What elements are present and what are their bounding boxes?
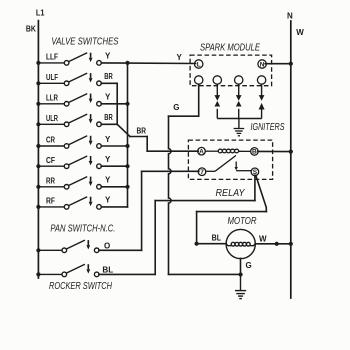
svg-text:PAN SWITCH-N.C.: PAN SWITCH-N.C. (50, 224, 115, 235)
svg-text:BL: BL (102, 266, 113, 275)
svg-text:N: N (260, 61, 265, 68)
svg-text:Y: Y (177, 53, 183, 62)
svg-text:LLR: LLR (46, 94, 58, 103)
svg-text:A: A (199, 149, 204, 156)
svg-text:B: B (252, 149, 257, 156)
svg-text:Y: Y (105, 196, 111, 205)
svg-text:RELAY: RELAY (216, 188, 246, 199)
svg-text:Y: Y (105, 135, 111, 144)
svg-text:RF: RF (46, 197, 55, 206)
svg-text:L1: L1 (36, 9, 45, 18)
svg-text:CR: CR (46, 136, 55, 145)
svg-text:BR: BR (137, 126, 147, 135)
svg-text:RR: RR (46, 177, 55, 186)
svg-text:O: O (104, 241, 110, 250)
svg-text:LLF: LLF (46, 53, 58, 62)
svg-text:7: 7 (200, 169, 204, 176)
svg-text:SPARK MODULE: SPARK MODULE (200, 43, 260, 54)
svg-text:ROCKER SWITCH: ROCKER SWITCH (49, 281, 113, 292)
svg-text:BR: BR (104, 113, 113, 122)
svg-text:CF: CF (46, 156, 55, 165)
svg-text:N: N (287, 11, 293, 20)
svg-text:BL: BL (212, 233, 222, 242)
svg-text:BK: BK (26, 24, 36, 33)
svg-text:IGNITERS: IGNITERS (251, 122, 285, 133)
svg-text:Y: Y (105, 93, 111, 102)
svg-text:Y: Y (105, 176, 111, 185)
svg-text:W: W (259, 235, 267, 244)
svg-text:VALVE SWITCHES: VALVE SWITCHES (51, 36, 118, 47)
svg-text:ULR: ULR (46, 114, 58, 123)
svg-text:BR: BR (104, 72, 113, 81)
svg-text:G: G (173, 103, 179, 112)
svg-text:Y: Y (105, 52, 111, 61)
svg-text:S: S (253, 169, 258, 176)
svg-text:W: W (296, 28, 304, 37)
svg-text:L: L (197, 61, 201, 68)
svg-text:ULF: ULF (46, 73, 58, 82)
svg-text:G: G (246, 261, 252, 270)
svg-text:MOTOR: MOTOR (228, 216, 257, 227)
svg-text:Y: Y (105, 155, 111, 164)
